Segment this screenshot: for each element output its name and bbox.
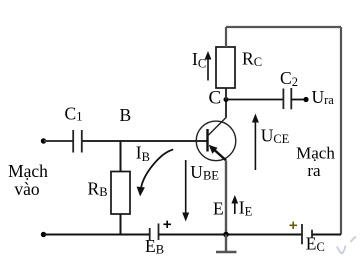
wire top horizontal [226, 26, 341, 28]
wire right vertical [340, 27, 342, 235]
plus sign EC [290, 222, 298, 229]
transistor Q1 circle [196, 121, 236, 161]
node C dot [224, 97, 229, 102]
svg-text:C: C [209, 87, 222, 108]
arrow IC [205, 51, 212, 81]
svg-text:Mạch: Mạch [296, 144, 335, 163]
ground bar [216, 251, 237, 253]
transistor collector stroke [208, 118, 227, 137]
transistor base bar [206, 129, 208, 152]
wire node C to C2 [226, 99, 283, 101]
input terminal dot bottom [41, 232, 46, 237]
arrow UCE [252, 114, 259, 171]
wire B branch down [120, 141, 122, 172]
svg-text:E: E [213, 198, 224, 218]
arrow UBE [182, 160, 189, 222]
capacitor C2 [283, 88, 291, 109]
wire bottom middle [159, 234, 303, 236]
svg-text:ra: ra [307, 161, 321, 180]
transistor emitter stroke with arrow [209, 145, 226, 161]
wire RB to bottom [120, 214, 122, 235]
arrow IE [231, 195, 238, 214]
wire emitter down [225, 160, 227, 234]
wire node C up to RC [225, 88, 227, 100]
battery EB [150, 224, 159, 241]
ground stem [225, 235, 227, 252]
terminal dot Ura [303, 97, 308, 102]
wire bottom right [312, 234, 341, 236]
node E junction dot [223, 232, 229, 238]
svg-text:B: B [120, 105, 132, 125]
wire C1 to base [82, 140, 207, 142]
watermark [337, 237, 356, 254]
capacitor C1 [73, 130, 82, 153]
plus sign EB [164, 221, 172, 228]
input terminal dot top [41, 138, 46, 143]
svg-text:vào: vào [14, 179, 40, 199]
wire collector up [225, 100, 227, 118]
label Mach vao [8, 161, 48, 199]
wire bottom left [44, 234, 150, 236]
wire C2 to Ura dot [291, 99, 305, 101]
label Mach ra [296, 144, 335, 180]
wire input top to C1 [44, 140, 73, 142]
battery EC [302, 224, 312, 244]
curved arrow IB [137, 150, 174, 197]
resistor RB [111, 172, 130, 215]
resistor RC [216, 47, 235, 88]
svg-text:Mạch: Mạch [8, 161, 48, 181]
wire RC top [225, 27, 227, 47]
